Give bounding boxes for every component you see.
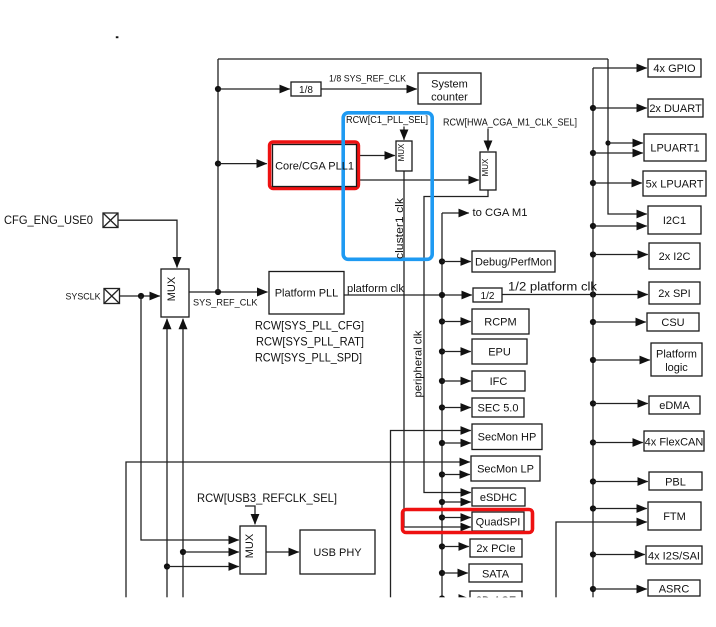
wire to 1/8 divider xyxy=(218,88,290,90)
block Platform PLL xyxy=(269,272,344,315)
block eSDHC xyxy=(472,488,525,506)
wire to LPUART1 xyxy=(593,152,643,154)
block 2D-ACE (cut off) xyxy=(470,591,522,609)
wire to 2x PCIe xyxy=(442,546,469,548)
block Platform logic xyxy=(651,343,702,376)
node PBL xyxy=(590,478,596,484)
wire bottom input A up into MUX0 xyxy=(166,319,168,600)
wire branch to CGA M1 xyxy=(442,212,469,214)
wire to SecMon LP xyxy=(442,474,470,476)
node SecMon LP xyxy=(439,471,445,477)
svg-text:Core/CGA PLL1: Core/CGA PLL1 xyxy=(275,161,354,173)
svg-text:ASRC: ASRC xyxy=(659,584,690,596)
svg-text:RCW[SYS_PLL_CFG]: RCW[SYS_PLL_CFG] xyxy=(255,319,364,333)
node Core PLL branch xyxy=(215,161,221,167)
node eDMA xyxy=(590,400,596,406)
svg-text:RCW[SYS_PLL_RAT]: RCW[SYS_PLL_RAT] xyxy=(256,335,364,349)
wire top horizontal SYS_REF_CLK distribution xyxy=(218,58,608,60)
svg-text:Platform PLL: Platform PLL xyxy=(275,288,339,300)
svg-text:eSDHC: eSDHC xyxy=(480,492,517,504)
wire to IFC xyxy=(442,380,471,382)
svg-text:MUX: MUX xyxy=(481,158,490,176)
block System counter xyxy=(418,73,481,104)
node EPU xyxy=(439,348,445,354)
node RCPM xyxy=(439,318,445,324)
red highlight box around Core/CGA PLL1 xyxy=(270,142,359,188)
svg-text:LPUART1: LPUART1 xyxy=(650,143,699,155)
wire to Platform logic xyxy=(593,359,650,361)
wire to CSU xyxy=(593,321,646,323)
svg-text:MUX: MUX xyxy=(397,143,406,161)
block RCPM xyxy=(472,309,529,334)
wire to SATA xyxy=(442,572,468,574)
pad SYSCLK xyxy=(104,289,120,304)
svg-text:1/8: 1/8 xyxy=(299,85,313,96)
wire to 5x LPUART xyxy=(593,182,642,184)
node 2x PCIe xyxy=(439,543,445,549)
wire branch to LPUART1 top xyxy=(608,142,643,144)
wire to eDMA xyxy=(593,403,648,405)
svg-text:CFG_ENG_USE0: CFG_ENG_USE0 xyxy=(4,215,93,227)
node IFC xyxy=(439,378,445,384)
node Debug/PerfMon xyxy=(439,258,445,264)
wire right trunk top to 4x GPIO xyxy=(593,67,647,69)
wire left trunk vertical xyxy=(217,59,219,292)
wire to 4x I2S/SAI xyxy=(593,554,645,556)
node 2x DUART xyxy=(590,105,596,111)
svg-text:IFC: IFC xyxy=(490,376,508,388)
node SEC 5.0 xyxy=(439,404,445,410)
block FTM xyxy=(648,502,701,530)
block 2x SPI xyxy=(649,282,700,304)
svg-text:SecMon HP: SecMon HP xyxy=(478,432,537,444)
svg-text:FTM: FTM xyxy=(663,511,686,523)
node SecMon HP xyxy=(439,440,445,446)
block I2C1 xyxy=(648,206,701,234)
wire to 2x I2C xyxy=(593,254,648,256)
svg-text:logic: logic xyxy=(665,362,688,374)
block ASRC xyxy=(648,580,700,596)
block EPU xyxy=(472,339,527,364)
block 4x GPIO xyxy=(648,59,701,77)
wire branch to MUX3 input2 xyxy=(183,551,239,553)
node on input B for MUX3 input2 xyxy=(180,549,186,555)
wire SecMon LP upper feed from bottom xyxy=(126,462,470,600)
svg-text:counter: counter xyxy=(431,92,468,104)
wire to QuadSPI xyxy=(442,517,471,519)
blue highlight box around cluster1 clock mux xyxy=(343,113,432,259)
block CSU xyxy=(647,313,699,331)
svg-text:1/2 platform clk: 1/2 platform clk xyxy=(508,282,597,294)
block SecMon HP xyxy=(472,424,542,450)
node 2x I2C xyxy=(590,251,596,257)
svg-text:I2C1: I2C1 xyxy=(663,215,686,227)
svg-text:to CGA M1: to CGA M1 xyxy=(473,207,528,219)
wire right drop of top line to I2C1 top xyxy=(608,59,647,214)
wire to Core/CGA PLL1 xyxy=(218,163,267,165)
wire to PBL xyxy=(593,481,648,483)
block USB PHY xyxy=(300,530,375,574)
block eDMA xyxy=(649,396,700,414)
wire SYSCLK to MUX0 left xyxy=(120,295,160,297)
block QuadSPI xyxy=(472,512,524,531)
svg-text:RCW[USB3_REFCLK_SEL]: RCW[USB3_REFCLK_SEL] xyxy=(197,491,337,505)
wire to I2C1 xyxy=(593,225,647,227)
node 2D-ACE xyxy=(439,595,445,601)
wire right trunk vertical xyxy=(592,68,594,600)
wire RCW[C1_PLL_SEL] arrow into MUX1 xyxy=(403,127,405,140)
wire middle trunk peripheral clk xyxy=(441,213,443,600)
svg-text:1/2: 1/2 xyxy=(481,291,495,302)
node SYSCLK junction xyxy=(138,293,144,299)
wire Core PLL1 output1 to MUX1 xyxy=(357,155,395,157)
block PBL xyxy=(649,472,702,490)
svg-text:RCPM: RCPM xyxy=(484,317,516,329)
svg-text:4x I2S/SAI: 4x I2S/SAI xyxy=(648,551,700,563)
wire 1/8 divider to System counter xyxy=(321,88,417,90)
wire CFG_ENG_USE0 to MUX0 top xyxy=(118,220,177,267)
block 2x PCIe xyxy=(470,539,522,557)
svg-text:CSU: CSU xyxy=(661,317,684,329)
wire RCW[HWA_CGA_M1_CLK_SEL] arrow into MUX2 xyxy=(487,129,489,151)
node platform clk trunk junction xyxy=(439,292,445,298)
pad CFG_ENG_USE0 xyxy=(103,213,118,228)
mux MUX2 xyxy=(480,152,496,190)
svg-text:5x LPUART: 5x LPUART xyxy=(646,179,704,191)
svg-text:SecMon LP: SecMon LP xyxy=(477,464,534,476)
node QuadSPI xyxy=(439,514,445,520)
wire MUX0 output SYS_REF_CLK to Platform PLL xyxy=(189,291,268,293)
node on drop line for LPUART1 top xyxy=(605,140,610,145)
wire to 2D-ACE xyxy=(442,598,469,600)
svg-text:SYS_REF_CLK: SYS_REF_CLK xyxy=(193,298,258,309)
node 5x LPUART xyxy=(590,180,596,186)
svg-text:1/8 SYS_REF_CLK: 1/8 SYS_REF_CLK xyxy=(329,74,406,84)
svg-text:USB PHY: USB PHY xyxy=(313,547,362,559)
svg-text:EPU: EPU xyxy=(488,347,511,359)
wire to EPU xyxy=(442,351,471,353)
wire RCW[USB3_REFCLK_SEL] connector into MUX3 xyxy=(245,506,255,524)
divider 1/2 xyxy=(473,288,502,302)
svg-text:2x SPI: 2x SPI xyxy=(658,288,690,300)
svg-text:SEC 5.0: SEC 5.0 xyxy=(478,403,519,415)
svg-text:2x DUART: 2x DUART xyxy=(649,103,702,115)
block SecMon LP xyxy=(471,456,540,481)
node on input A for MUX3 input3 xyxy=(164,563,170,569)
wire FTM lower feed from bottom xyxy=(556,522,647,600)
wire MUX1 output cluster1 clk down to QuadSPI lower input xyxy=(404,171,471,527)
bottom crop mask xyxy=(0,597,716,627)
svg-text:MUX: MUX xyxy=(166,276,178,301)
block SATA xyxy=(469,564,522,582)
block 5x LPUART xyxy=(643,171,706,196)
wire MUX3 output to USB PHY xyxy=(266,551,299,553)
svg-text:eDMA: eDMA xyxy=(659,400,690,412)
block LPUART1 xyxy=(644,134,706,161)
node 2x SPI on right trunk xyxy=(590,291,596,297)
wire Platform PLL output platform clk to 1/2 divider xyxy=(344,294,472,296)
svg-text:Platform: Platform xyxy=(656,349,697,361)
wire SYSCLK branch down to MUX3 input1 xyxy=(141,296,239,540)
wire to 4x FlexCAN xyxy=(593,442,643,444)
red highlight box around QuadSPI xyxy=(403,510,533,533)
node LPUART1 xyxy=(590,150,596,156)
wire to SecMon HP xyxy=(442,442,471,444)
wire to RCPM xyxy=(442,321,471,323)
wire to 2x DUART xyxy=(593,107,647,109)
svg-text:SATA: SATA xyxy=(482,569,510,581)
svg-text:cluster1 clk: cluster1 clk xyxy=(394,197,406,259)
node SYS_REF_CLK trunk junction xyxy=(215,289,221,295)
svg-text:PBL: PBL xyxy=(665,477,686,489)
mux MUX1 xyxy=(396,141,412,171)
wire Core PLL1 output2 to MUX2 xyxy=(357,179,479,181)
wire 1/2 divider to 2x SPI xyxy=(502,294,648,296)
svg-text:2x I2C: 2x I2C xyxy=(659,251,691,263)
node FTM xyxy=(590,505,596,511)
svg-text:RCW[HWA_CGA_M1_CLK_SEL]: RCW[HWA_CGA_M1_CLK_SEL] xyxy=(443,118,577,129)
node eSDHC xyxy=(439,499,445,505)
block 2x DUART xyxy=(648,99,703,117)
stray dot mark xyxy=(116,36,119,38)
svg-text:4x GPIO: 4x GPIO xyxy=(653,63,696,75)
svg-text:4x FlexCAN: 4x FlexCAN xyxy=(645,437,704,449)
svg-text:RCW[SYS_PLL_SPD]: RCW[SYS_PLL_SPD] xyxy=(255,351,362,365)
svg-text:QuadSPI: QuadSPI xyxy=(476,517,521,529)
node I2C1 xyxy=(590,223,596,229)
block Core/CGA PLL1 xyxy=(273,145,357,187)
block 4x I2S/SAI xyxy=(646,546,702,564)
wire to SEC 5.0 xyxy=(442,407,471,409)
node SATA xyxy=(439,570,445,576)
svg-text:SYSCLK: SYSCLK xyxy=(66,292,102,303)
svg-text:2x PCIe: 2x PCIe xyxy=(476,543,515,555)
svg-text:peripheral clk: peripheral clk xyxy=(413,330,425,398)
svg-text:MUX: MUX xyxy=(244,533,256,558)
svg-text:Debug/PerfMon: Debug/PerfMon xyxy=(475,257,552,269)
wire branch to MUX3 input3 xyxy=(167,566,239,568)
wire to Debug/PerfMon xyxy=(442,261,471,263)
block 4x FlexCAN xyxy=(644,431,704,451)
mux MUX3 xyxy=(240,526,266,574)
block 2x I2C xyxy=(649,243,700,269)
node 4x FlexCAN xyxy=(590,439,596,445)
svg-text:platform clk: platform clk xyxy=(347,283,404,295)
node 4x I2S/SAI xyxy=(590,551,596,557)
wire SecMon HP upper feed from bottom xyxy=(391,431,471,601)
node 1/8 branch xyxy=(215,86,221,92)
wire to FTM xyxy=(593,508,647,510)
wire to ASRC xyxy=(593,588,647,590)
block Debug/PerfMon xyxy=(472,251,555,272)
wire to eSDHC xyxy=(442,501,471,503)
node CSU xyxy=(590,319,596,325)
divider 1/8 xyxy=(291,82,321,96)
wire bottom input B up into MUX0 xyxy=(182,319,184,600)
block SEC 5.0 xyxy=(472,398,524,417)
wire MUX2 output down to eSDHC upper input xyxy=(424,190,488,493)
svg-text:System: System xyxy=(431,79,468,91)
svg-text:RCW[C1_PLL_SEL]: RCW[C1_PLL_SEL] xyxy=(346,115,428,126)
node ASRC xyxy=(590,586,596,592)
block IFC xyxy=(472,371,525,391)
mux MUX0 xyxy=(161,269,189,317)
node Platform logic xyxy=(590,357,596,363)
